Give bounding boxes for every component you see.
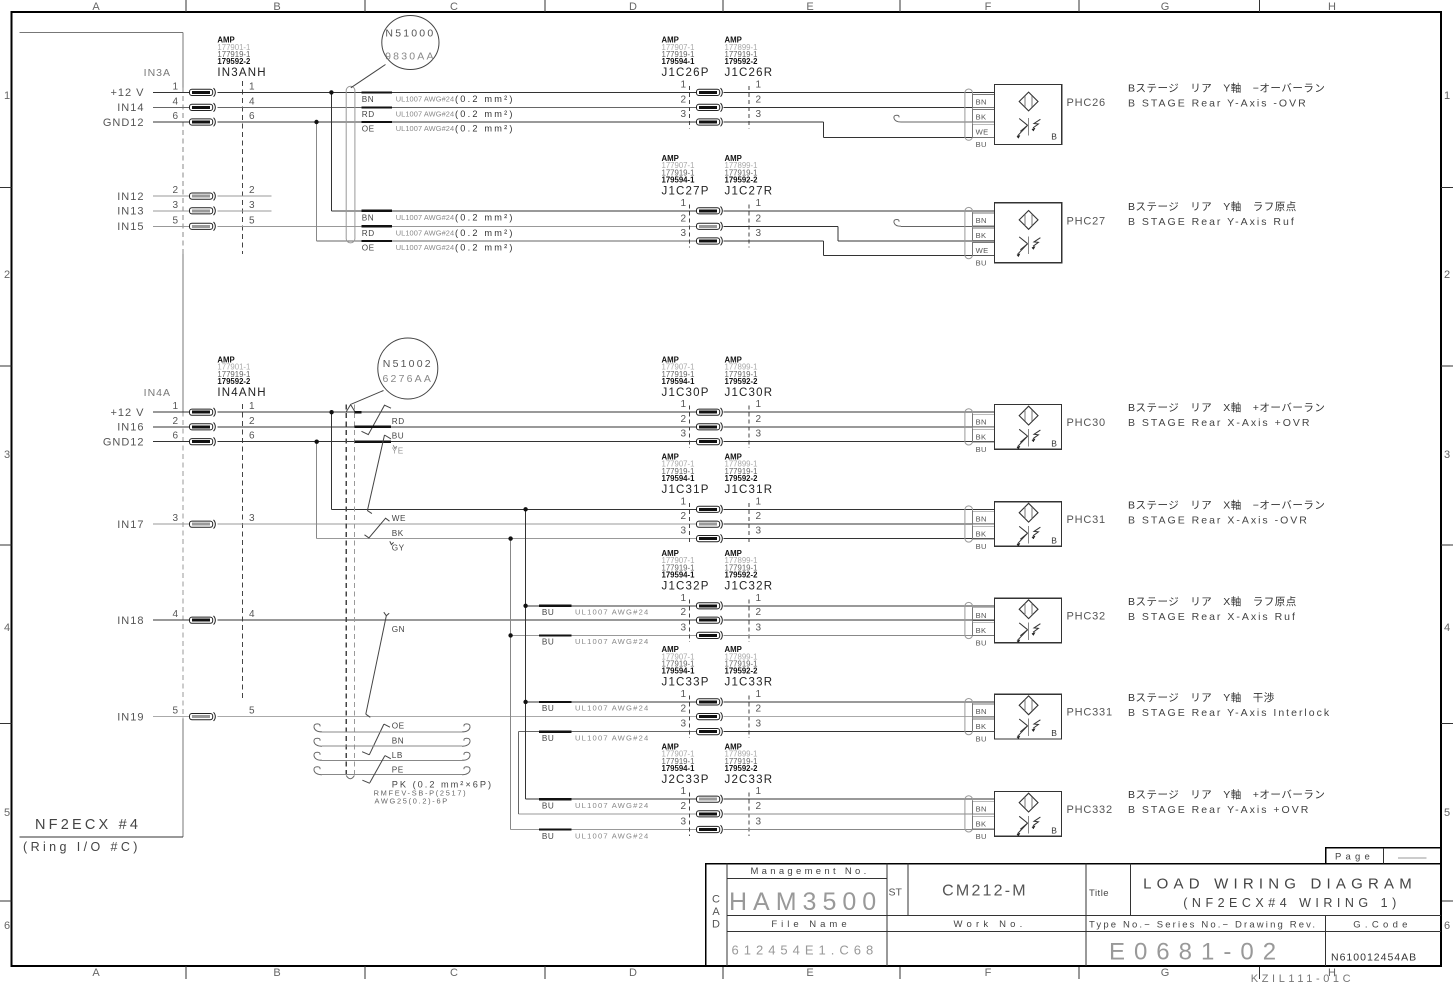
open wire stub PHC27 BK	[894, 220, 995, 227]
net +12 V (IN4A pin 1)	[110, 401, 255, 419]
junction dot J1C31 pin1	[523, 507, 527, 511]
svg-text:LB: LB	[392, 751, 403, 760]
description PHC32	[1128, 595, 1297, 623]
I/O unit NF2ECX #4 box	[19, 32, 183, 837]
connector pair J2C33P / J2C33R	[662, 742, 774, 836]
svg-text:6: 6	[249, 431, 255, 442]
svg-text:J1C27P: J1C27P	[662, 186, 710, 198]
svg-text:5: 5	[249, 706, 255, 717]
svg-text:Bステージ リア Y軸 干渉: Bステージ リア Y軸 干渉	[1128, 691, 1275, 704]
connector boundary dashed lines IN4A	[182, 412, 184, 719]
wire GND12 to J1C30 pin3	[218, 441, 697, 443]
svg-text:4: 4	[1444, 622, 1450, 634]
svg-text:PHC31: PHC31	[1067, 514, 1106, 526]
wire J2C33 pin2 feed	[519, 813, 697, 815]
cable wire crossover diagonal (OE to spare BN)	[369, 724, 384, 755]
connector pair J1C32P / J1C32R	[662, 549, 774, 642]
cable sheath dashed (harness N51002)	[346, 405, 355, 779]
svg-text:1: 1	[756, 786, 762, 797]
wire colour label BU (J1C33-1)	[539, 702, 649, 713]
svg-text:AWG25(0.2)-6P: AWG25(0.2)-6P	[375, 796, 449, 805]
svg-text:Page: Page	[1335, 852, 1374, 863]
svg-text:HAM3500: HAM3500	[729, 888, 882, 916]
svg-text:1: 1	[756, 79, 762, 90]
svg-text:BN: BN	[976, 611, 987, 620]
page box	[1326, 848, 1441, 864]
svg-text:UL1007 AWG#24: UL1007 AWG#24	[396, 124, 455, 133]
svg-text:4: 4	[172, 609, 178, 620]
svg-text:ST: ST	[889, 887, 903, 899]
svg-text:3: 3	[756, 622, 762, 633]
svg-text:J1C31P: J1C31P	[662, 484, 710, 496]
photo-interrupter PHC27	[965, 203, 1106, 268]
svg-text:3: 3	[680, 817, 686, 828]
svg-text:3: 3	[249, 200, 255, 211]
svg-text:B STAGE Rear Y-Axis Interlock: B STAGE Rear Y-Axis Interlock	[1128, 707, 1331, 719]
svg-text:B: B	[1051, 131, 1057, 141]
wire J1C26-2 to PHC26 BK	[724, 106, 995, 108]
svg-text:RD: RD	[392, 417, 405, 426]
description PHC331	[1128, 691, 1331, 719]
svg-text:Bステージ リア X軸 +オーバーラン: Bステージ リア X軸 +オーバーラン	[1128, 401, 1325, 414]
svg-text:E: E	[806, 967, 813, 979]
svg-text:3: 3	[680, 228, 686, 239]
vertical trunk GND12 to J1C27 (x=316.5)	[316, 122, 318, 241]
svg-text:179594-1: 179594-1	[662, 377, 696, 386]
svg-text:G: G	[1161, 1, 1170, 13]
svg-text:J1C31R: J1C31R	[725, 484, 774, 496]
svg-text:2: 2	[249, 185, 255, 196]
wire J1C27 pin1 feed (BN)	[331, 210, 696, 212]
svg-text:1: 1	[249, 401, 255, 412]
svg-text:BU: BU	[976, 735, 987, 744]
spare cable wire PK	[314, 767, 470, 775]
svg-text:BK: BK	[976, 432, 987, 441]
svg-text:179592-2: 179592-2	[725, 474, 759, 483]
svg-text:(0.2 mm²): (0.2 mm²)	[455, 124, 515, 134]
svg-text:Management No.: Management No.	[750, 866, 869, 877]
svg-text:4: 4	[172, 96, 178, 107]
svg-text:1: 1	[680, 496, 686, 507]
svg-text:N610012454AB: N610012454AB	[1331, 952, 1417, 964]
junction dot +12V/IN4A	[329, 410, 333, 414]
connector pair J1C27P / J1C27R	[662, 154, 774, 248]
vertical trunk BU return (x=510.6)	[510, 539, 512, 830]
svg-text:IN19: IN19	[117, 711, 144, 723]
connector pair J1C30P / J1C30R	[662, 355, 774, 448]
svg-text:3: 3	[172, 200, 178, 211]
wire J1C26-1 to PHC26 BN	[724, 91, 995, 93]
svg-text:3: 3	[756, 526, 762, 537]
svg-text:2: 2	[172, 185, 178, 196]
svg-text:H: H	[1328, 1, 1336, 13]
svg-text:179592-2: 179592-2	[725, 176, 759, 185]
net IN17 (IN4A pin 3)	[117, 513, 255, 531]
svg-text:179592-2: 179592-2	[217, 377, 251, 386]
svg-text:612454E1.C68: 612454E1.C68	[732, 943, 879, 958]
svg-text:PHC331: PHC331	[1067, 707, 1113, 719]
svg-text:BN: BN	[976, 804, 987, 813]
svg-text:N51000: N51000	[385, 28, 435, 40]
vertical link J1C33 pin3 to J2C33 pin2 (x=518.5)	[518, 732, 520, 814]
svg-text:BK: BK	[976, 722, 987, 731]
svg-text:PHC32: PHC32	[1067, 611, 1106, 623]
description PHC26	[1128, 81, 1325, 109]
svg-text:179594-1: 179594-1	[662, 474, 696, 483]
description PHC30	[1128, 401, 1325, 429]
svg-text:IN4A: IN4A	[144, 387, 171, 399]
svg-text:UL1007 AWG#24: UL1007 AWG#24	[396, 243, 455, 252]
net IN19 (IN4A pin 5)	[117, 706, 255, 724]
junction dot GND12/IN4A	[315, 440, 319, 444]
svg-text:3: 3	[249, 513, 255, 524]
svg-text:BK: BK	[976, 231, 987, 240]
svg-text:BN: BN	[976, 707, 987, 716]
net IN13 (IN3A pin 3)	[117, 200, 271, 218]
svg-text:3: 3	[756, 429, 762, 440]
svg-text:179592-2: 179592-2	[217, 57, 251, 66]
svg-text:J1C32R: J1C32R	[725, 581, 774, 593]
open wire stub PHC26 WE	[894, 115, 995, 122]
svg-text:J1C30R: J1C30R	[725, 387, 774, 399]
svg-text:6276AA: 6276AA	[383, 373, 434, 385]
svg-text:Work No.: Work No.	[953, 919, 1026, 930]
wire IN18 to J1C32 pin2 (GN)	[218, 619, 697, 621]
svg-text:GND12: GND12	[103, 437, 145, 449]
svg-text:3: 3	[756, 109, 762, 120]
svg-text:1: 1	[680, 79, 686, 90]
wire J1C27-2 to PHC27 WE with step	[724, 226, 995, 241]
svg-text:B STAGE Rear Y-Axis +OVR: B STAGE Rear Y-Axis +OVR	[1128, 804, 1310, 816]
svg-text:BU: BU	[976, 832, 987, 841]
net IN15 (IN3A pin 5)	[117, 215, 255, 233]
svg-text:1: 1	[1444, 90, 1450, 102]
svg-text:2: 2	[1444, 269, 1450, 281]
svg-text:J1C33R: J1C33R	[725, 677, 774, 689]
svg-text:BN: BN	[392, 737, 404, 746]
wire colour label BU (J1C33-3)	[539, 732, 649, 743]
svg-text:BU: BU	[976, 140, 987, 149]
svg-text:J1C30P: J1C30P	[662, 387, 710, 399]
leader LB to PK	[362, 756, 390, 784]
svg-text:YE: YE	[392, 447, 404, 456]
svg-text:1: 1	[249, 81, 255, 92]
svg-text:J1C26P: J1C26P	[662, 67, 710, 79]
svg-text:179592-2: 179592-2	[725, 764, 759, 773]
wire +12V to J1C30 pin1	[218, 411, 697, 413]
photo-interrupter PHC26	[965, 84, 1106, 149]
svg-text:UL1007 AWG#24: UL1007 AWG#24	[575, 801, 649, 810]
vertical trunk +12V to J1C27 (x=331.4)	[330, 92, 332, 210]
svg-text:2: 2	[756, 607, 762, 618]
svg-text:6: 6	[172, 431, 178, 442]
svg-text:Bステージ リア Y軸 ラフ原点: Bステージ リア Y軸 ラフ原点	[1128, 200, 1297, 213]
svg-text:C: C	[712, 894, 720, 906]
connector boundary dashed lines IN3A	[182, 88, 184, 255]
spare cable wire PE	[314, 752, 470, 760]
svg-text:BK: BK	[976, 819, 987, 828]
wire colour label OE (J1C33-2) with leader	[366, 714, 405, 730]
svg-text:179592-2: 179592-2	[725, 57, 759, 66]
svg-text:6: 6	[4, 920, 10, 932]
svg-text:3: 3	[1444, 449, 1450, 461]
svg-text:+12 V: +12 V	[110, 407, 144, 419]
svg-text:BU: BU	[976, 638, 987, 647]
svg-text:GY: GY	[392, 543, 405, 552]
svg-text:B: B	[1051, 439, 1057, 449]
svg-text:B STAGE Rear X-Axis -OVR: B STAGE Rear X-Axis -OVR	[1128, 514, 1309, 526]
svg-text:6: 6	[172, 111, 178, 122]
svg-text:BU: BU	[976, 445, 987, 454]
svg-text:3: 3	[680, 109, 686, 120]
svg-text:WE: WE	[976, 246, 989, 255]
net +12 V (IN3A pin 1)	[110, 81, 255, 99]
svg-text:BU: BU	[542, 802, 554, 811]
svg-text:BK: BK	[392, 529, 404, 538]
svg-text:BN: BN	[976, 515, 987, 524]
svg-text:2: 2	[680, 607, 686, 618]
cable sheath oval (harness N51000)	[346, 86, 355, 243]
wires J2C33 to PHC332	[724, 799, 995, 829]
svg-text:4: 4	[4, 622, 10, 634]
wire colour label YE (J1C30-3) with leader	[355, 442, 404, 456]
svg-text:D: D	[629, 967, 637, 979]
wires J1C33 to PHC331	[724, 702, 995, 732]
svg-text:Title: Title	[1089, 888, 1109, 899]
wire colour label RD (J1C26-2)	[362, 107, 515, 119]
wire colour label BU (J2C33-1)	[539, 799, 649, 810]
wires J1C30 to PHC30	[724, 412, 995, 442]
svg-text:J1C26R: J1C26R	[725, 67, 774, 79]
net IN12 (IN3A pin 2)	[117, 185, 271, 203]
svg-text:3: 3	[680, 429, 686, 440]
svg-text:BU: BU	[542, 734, 554, 743]
svg-text:WE: WE	[392, 514, 406, 523]
svg-text:(0.2 mm²): (0.2 mm²)	[455, 94, 515, 104]
svg-text:Bステージ リア X軸 ラフ原点: Bステージ リア X軸 ラフ原点	[1128, 595, 1297, 608]
junction dot GND12/IN3A	[314, 120, 318, 124]
spare cable wire BN	[314, 724, 470, 732]
svg-text:OE: OE	[392, 721, 405, 730]
svg-text:179592-2: 179592-2	[725, 571, 759, 580]
wire colour label BN (J1C27-1)	[362, 211, 515, 223]
svg-text:3: 3	[680, 622, 686, 633]
svg-text:2: 2	[756, 801, 762, 812]
svg-text:B: B	[1051, 536, 1057, 546]
svg-text:UL1007 AWG#24: UL1007 AWG#24	[575, 608, 649, 617]
svg-text:BN: BN	[362, 213, 374, 222]
description PHC31	[1128, 498, 1325, 526]
svg-text:IN4ANH: IN4ANH	[217, 387, 266, 399]
connector pair J1C33P / J1C33R	[662, 645, 774, 738]
wire colour label BU (J1C32-1)	[539, 606, 649, 617]
svg-text:B: B	[1051, 728, 1057, 738]
svg-text:PHC27: PHC27	[1067, 216, 1106, 228]
svg-text:J1C33P: J1C33P	[662, 677, 710, 689]
svg-text:2: 2	[680, 801, 686, 812]
wire J1C32 pin3 feed (BU)	[511, 634, 697, 636]
junction dot +12V/IN3A	[329, 90, 333, 94]
wire J1C33 pin1 feed (BU)	[526, 701, 697, 703]
svg-text:2: 2	[172, 416, 178, 427]
svg-text:BK: BK	[976, 626, 987, 635]
svg-text:BN: BN	[976, 417, 987, 426]
svg-text:J1C27R: J1C27R	[725, 186, 774, 198]
photo-interrupter PHC30	[965, 405, 1106, 454]
svg-text:BU: BU	[976, 259, 987, 268]
connector pair J1C31P / J1C31R	[662, 453, 774, 546]
junction dot J1C32 pin1	[523, 604, 527, 608]
vertical trunk BU feed (x=525.6)	[525, 509, 527, 799]
svg-text:GND12: GND12	[103, 117, 145, 129]
svg-text:5: 5	[172, 215, 178, 226]
svg-text:J2C33P: J2C33P	[662, 774, 710, 786]
svg-text:(0.2 mm²): (0.2 mm²)	[455, 243, 515, 253]
vertical trunk GND12 to J1C31 (x=316.7)	[316, 442, 318, 539]
svg-text:NF2ECX #4: NF2ECX #4	[35, 817, 141, 833]
svg-text:BU: BU	[542, 704, 554, 713]
svg-text:UL1007 AWG#24: UL1007 AWG#24	[396, 228, 455, 237]
balloon N51000 9830AA	[382, 16, 439, 70]
svg-text:D: D	[712, 919, 720, 931]
svg-text:File Name: File Name	[771, 919, 850, 930]
svg-text:2: 2	[680, 414, 686, 425]
svg-text:C: C	[450, 967, 458, 979]
svg-text:9830AA: 9830AA	[385, 51, 436, 63]
svg-text:2: 2	[680, 94, 686, 105]
svg-text:1: 1	[680, 198, 686, 209]
wire colour label RD (J1C30-1) with leader	[355, 405, 405, 434]
svg-text:BK: BK	[976, 530, 987, 539]
svg-text:1: 1	[756, 689, 762, 700]
svg-text:5: 5	[249, 215, 255, 226]
connector IN3A label block	[144, 36, 267, 80]
svg-text:IN17: IN17	[117, 519, 144, 531]
svg-text:BU: BU	[542, 832, 554, 841]
wire J2C33 pin3 feed (BU)	[511, 829, 697, 831]
svg-text:PHC332: PHC332	[1067, 804, 1113, 816]
connector IN4A label block	[144, 355, 267, 399]
net IN14 (IN3A pin 4)	[117, 96, 255, 114]
svg-text:IN13: IN13	[117, 206, 144, 218]
svg-text:PE: PE	[392, 766, 404, 775]
svg-text:CM212-M: CM212-M	[942, 883, 1028, 900]
svg-text:BN: BN	[976, 216, 987, 225]
svg-text:B STAGE Rear X-Axis Ruf: B STAGE Rear X-Axis Ruf	[1128, 611, 1297, 623]
wire IN16 to J1C30 pin2	[218, 426, 697, 428]
svg-text:IN12: IN12	[117, 191, 144, 203]
svg-text:4: 4	[249, 96, 255, 107]
svg-text:1: 1	[172, 401, 178, 412]
svg-text:3: 3	[680, 526, 686, 537]
svg-text:BU: BU	[976, 542, 987, 551]
svg-text:E: E	[806, 1, 813, 13]
svg-text:3: 3	[172, 513, 178, 524]
title block frame	[706, 864, 1441, 967]
cable wire crossover diagonal (YE to WE)	[367, 435, 384, 511]
wire colour label GY (J1C31-3) with leader	[390, 541, 405, 552]
svg-text:IN3ANH: IN3ANH	[217, 67, 266, 79]
svg-text:A: A	[92, 1, 100, 13]
svg-text:OE: OE	[362, 125, 375, 134]
svg-text:3: 3	[756, 228, 762, 239]
svg-text:UL1007 AWG#24: UL1007 AWG#24	[575, 704, 649, 713]
svg-text:1: 1	[4, 90, 10, 102]
svg-text:OE: OE	[362, 244, 375, 253]
svg-text:3: 3	[756, 719, 762, 730]
svg-text:B: B	[273, 1, 280, 13]
wire IN15 to J1C27 pin2 (RD)	[218, 225, 697, 227]
svg-text:2: 2	[756, 414, 762, 425]
svg-text:179594-1: 179594-1	[662, 176, 696, 185]
svg-text:3: 3	[4, 449, 10, 461]
wire colour label WE (J1C31-1) with leader	[367, 511, 406, 523]
net IN18 (IN4A pin 4)	[117, 609, 255, 627]
svg-text:UL1007 AWG#24: UL1007 AWG#24	[396, 109, 455, 118]
svg-text:A: A	[92, 967, 100, 979]
wire IN17 to J1C31 pin2 (BK)	[218, 523, 697, 525]
svg-text:B STAGE Rear Y-Axis Ruf: B STAGE Rear Y-Axis Ruf	[1128, 216, 1296, 228]
net IN16 (IN4A pin 2)	[117, 416, 255, 434]
svg-text:2: 2	[680, 213, 686, 224]
svg-text:G: G	[1161, 967, 1170, 979]
svg-text:3: 3	[756, 817, 762, 828]
svg-text:6: 6	[249, 111, 255, 122]
svg-text:B: B	[1051, 826, 1057, 836]
junction dot J1C31 pin3	[508, 536, 512, 540]
svg-text:BU: BU	[392, 432, 404, 441]
svg-text:Bステージ リア Y軸 +オーバーラン: Bステージ リア Y軸 +オーバーラン	[1128, 788, 1325, 801]
wire colour label BU (J2C33-3)	[539, 830, 649, 841]
svg-text:PHC30: PHC30	[1067, 417, 1106, 429]
svg-text:+12 V: +12 V	[110, 87, 144, 99]
photo-interrupter PHC331	[965, 694, 1113, 743]
svg-text:IN18: IN18	[117, 615, 144, 627]
svg-text:B STAGE Rear Y-Axis -OVR: B STAGE Rear Y-Axis -OVR	[1128, 97, 1308, 109]
svg-text:BN: BN	[976, 98, 987, 107]
svg-text:UL1007 AWG#24: UL1007 AWG#24	[575, 733, 649, 742]
svg-text:1: 1	[756, 593, 762, 604]
svg-text:2: 2	[756, 511, 762, 522]
svg-text:D: D	[629, 1, 637, 13]
svg-text:179592-2: 179592-2	[725, 667, 759, 676]
svg-text:(0.2 mm²): (0.2 mm²)	[455, 228, 515, 238]
wire J1C27-1 to PHC27 BN	[724, 210, 995, 212]
svg-text:179594-1: 179594-1	[662, 667, 696, 676]
wire colour label RD (J1C27-2)	[362, 226, 515, 238]
spare cable wire LB	[314, 738, 470, 746]
net GND12 (IN4A pin 6)	[103, 431, 255, 449]
wire J2C33 pin1 feed (BU)	[526, 798, 697, 800]
wire J1C27 pin3 feed (OE)	[317, 240, 697, 242]
wire colour label BK (J1C31-2) with leader	[365, 518, 404, 538]
svg-text:2: 2	[249, 416, 255, 427]
net GND12 (IN3A pin 6)	[103, 111, 255, 129]
svg-text:F: F	[985, 1, 992, 13]
svg-text:IN16: IN16	[117, 422, 144, 434]
svg-text:1: 1	[680, 593, 686, 604]
description PHC332	[1128, 788, 1325, 816]
svg-text:GN: GN	[392, 625, 405, 634]
svg-text:5: 5	[4, 807, 10, 819]
svg-text:179594-1: 179594-1	[662, 571, 696, 580]
svg-text:(NF2ECX#4 WIRING 1): (NF2ECX#4 WIRING 1)	[1183, 896, 1400, 910]
wire J1C27-3 to PHC27 BU with step	[724, 241, 995, 256]
svg-text:4: 4	[249, 609, 255, 620]
svg-text:BN: BN	[362, 95, 374, 104]
wire colour label BU (J1C32-3)	[539, 635, 649, 646]
svg-text:C: C	[450, 1, 458, 13]
